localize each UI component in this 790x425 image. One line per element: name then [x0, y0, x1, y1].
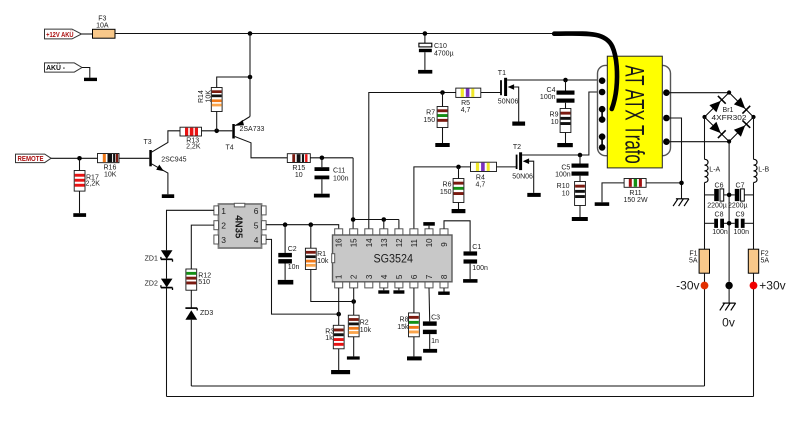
wire F1 to -30v node: [704, 273, 706, 386]
svg-text:C3: C3: [431, 314, 440, 321]
svg-text:4XFR302: 4XFR302: [712, 113, 747, 122]
svg-text:5A: 5A: [689, 257, 698, 264]
ground pin5: [393, 288, 404, 294]
junction C2 top: [283, 222, 288, 227]
svg-text:T3: T3: [144, 139, 152, 146]
svg-text:2200µ: 2200µ: [707, 202, 727, 209]
resistor R11 150 2W: [602, 179, 682, 205]
wire pin9 to C1: [444, 221, 470, 252]
capacitor C8 100n: [705, 212, 730, 236]
svg-text:1n: 1n: [431, 338, 439, 345]
svg-text:2SC945: 2SC945: [161, 157, 186, 164]
svg-text:1: 1: [221, 206, 226, 216]
bridge rectifier Br1 4XFR302: [702, 90, 755, 143]
transformer AT ATX Trafo: [598, 56, 671, 168]
resistor R10 10: [557, 182, 586, 218]
ground C3: [423, 349, 437, 353]
svg-text:2: 2: [350, 274, 359, 279]
svg-text:1: 1: [335, 274, 344, 279]
wire pin7 to C3: [428, 288, 431, 322]
wire pin1 to R3: [338, 288, 340, 325]
svg-text:10n: 10n: [288, 264, 300, 271]
junction R7: [440, 90, 445, 95]
junction C4: [563, 78, 568, 83]
resistor R8 15k: [397, 313, 419, 357]
ground pin4: [378, 288, 389, 294]
svg-text:50N06: 50N06: [498, 99, 519, 106]
fuse F2 5A: [748, 249, 769, 273]
capacitor C1 100n: [464, 244, 488, 279]
svg-text:100n: 100n: [472, 265, 488, 272]
svg-text:3: 3: [365, 274, 374, 279]
svg-text:R14: R14: [198, 90, 205, 103]
wire +30v rail: [753, 183, 755, 250]
ground C11: [314, 194, 330, 198]
wire feedback +30v (B): [167, 396, 754, 398]
svg-text:REMOTE: REMOTE: [18, 156, 44, 163]
svg-text:C9: C9: [736, 212, 745, 219]
junction R14/T4 emitter: [248, 75, 253, 80]
svg-text:C2: C2: [288, 246, 297, 253]
wire F2 to +30v node: [753, 273, 755, 396]
svg-text:4,7: 4,7: [476, 182, 486, 189]
node REMOTE flag: [16, 154, 52, 163]
svg-text:AT ATX Trafo: AT ATX Trafo: [619, 65, 649, 164]
wire R12 to ZD3: [190, 290, 192, 308]
svg-text:4: 4: [380, 274, 389, 279]
svg-text:T1: T1: [498, 70, 506, 77]
junction R1/pin2: [351, 299, 356, 304]
svg-text:2200µ: 2200µ: [728, 202, 748, 209]
ground AKU-: [84, 78, 97, 81]
wire R13 to T4 base: [202, 130, 233, 132]
svg-text:C5: C5: [561, 164, 570, 171]
wire AKU- to ground: [82, 68, 90, 78]
resistor R2 10k: [348, 315, 371, 356]
ground R7: [435, 143, 449, 147]
svg-text:10A: 10A: [96, 23, 109, 30]
svg-text:100n: 100n: [734, 229, 750, 236]
wire pin11 column: [414, 167, 471, 229]
svg-text:10: 10: [562, 190, 570, 197]
trafo pin link 5-6: [601, 137, 603, 148]
svg-text:16: 16: [335, 238, 344, 247]
transistor T1 50N06: [498, 70, 519, 122]
junction REMOTE/R17: [77, 156, 82, 161]
ground R2: [347, 356, 360, 359]
wire +12V rail: [115, 33, 554, 35]
svg-text:3: 3: [221, 235, 226, 245]
resistor R12 510: [186, 269, 211, 290]
svg-text:510: 510: [198, 279, 210, 286]
junction R11/trafo/chassis: [679, 181, 684, 186]
svg-text:5: 5: [395, 274, 404, 279]
svg-text:R6: R6: [443, 182, 452, 189]
junction R13/R14/T4: [214, 129, 219, 134]
node -30v: [676, 278, 708, 292]
svg-text:10: 10: [295, 172, 303, 179]
ground pin10 (above): [423, 222, 435, 229]
junction C5: [578, 153, 583, 158]
svg-text:T4: T4: [226, 144, 234, 151]
diode bottom-left: [709, 122, 720, 133]
svg-text:R7: R7: [426, 110, 435, 117]
ground pin8: [438, 288, 450, 295]
capacitor C6 2200u: [705, 182, 730, 209]
svg-text:10: 10: [425, 238, 434, 247]
capacitor C7 2200u: [728, 182, 754, 209]
wire R1 to pin2 column: [311, 270, 354, 302]
svg-text:2,2K: 2,2K: [186, 144, 201, 151]
svg-text:SG3524: SG3524: [374, 254, 414, 266]
wire +30v rail upper: [753, 117, 755, 159]
svg-text:10k: 10k: [360, 327, 372, 334]
wire REMOTE to R16: [51, 157, 98, 159]
wire pin15 column: [352, 158, 354, 229]
svg-text:C7: C7: [736, 182, 745, 189]
svg-text:R15: R15: [292, 165, 305, 172]
svg-text:R5: R5: [461, 100, 470, 107]
zener ZD1: [145, 250, 173, 262]
wire -30v rail upper: [704, 117, 706, 159]
ground R10: [572, 217, 588, 221]
svg-text:5A: 5A: [761, 257, 770, 264]
ground C1: [463, 279, 477, 283]
wire 4N35 pin5 to pin16: [266, 225, 339, 229]
svg-text:C6: C6: [715, 182, 724, 189]
svg-text:6: 6: [254, 206, 259, 216]
ground C2: [278, 280, 294, 285]
svg-text:150 2W: 150 2W: [623, 197, 648, 204]
svg-text:R11: R11: [629, 190, 641, 197]
resistor R7 150: [423, 93, 447, 144]
svg-text:100n: 100n: [712, 229, 728, 236]
wire R15 to pin15 column: [310, 157, 353, 159]
wire pin2 to R2: [353, 288, 355, 315]
transistor T4 2SA733: [226, 34, 288, 158]
resistor R15 10: [287, 154, 310, 179]
junction C11: [320, 156, 325, 161]
svg-text:R9: R9: [550, 112, 559, 119]
resistor R16 10K: [98, 154, 120, 179]
svg-text:ZD2: ZD2: [145, 280, 158, 287]
svg-text:F2: F2: [761, 250, 769, 257]
wire ZD1 to ZD2: [166, 260, 168, 279]
capacitor C5 100n: [555, 155, 588, 182]
resistor R4 4,7: [471, 162, 497, 188]
svg-text:L-A: L-A: [709, 167, 720, 174]
wire 0v rail: [728, 142, 730, 282]
svg-text:10K: 10K: [206, 90, 213, 103]
svg-text:15: 15: [350, 238, 359, 247]
svg-text:C11: C11: [333, 168, 345, 175]
svg-text:0v: 0v: [722, 316, 735, 330]
svg-text:100n: 100n: [540, 94, 556, 101]
wire T2 drain to trafo: [522, 92, 602, 155]
wire R4 to T2 gate: [497, 166, 517, 168]
svg-text:12: 12: [395, 238, 404, 247]
svg-text:150: 150: [423, 117, 435, 124]
svg-text:2,2K: 2,2K: [86, 181, 101, 188]
svg-text:T2: T2: [513, 144, 521, 151]
resistor R9 10: [550, 109, 571, 144]
junction R6: [456, 165, 461, 170]
inductor L-B: [754, 159, 770, 182]
svg-text:10k: 10k: [317, 258, 329, 265]
zener ZD2: [145, 279, 173, 290]
svg-text:C1: C1: [472, 244, 481, 251]
svg-text:-30v: -30v: [676, 278, 699, 292]
svg-text:50N06: 50N06: [512, 173, 533, 180]
node AKU- flag: [45, 63, 83, 72]
svg-text:150: 150: [440, 189, 452, 196]
resistor R14 10K: [198, 77, 250, 131]
ground C10: [418, 70, 432, 74]
svg-text:15k: 15k: [397, 324, 409, 331]
svg-text:6: 6: [410, 274, 419, 279]
svg-text:10: 10: [551, 119, 559, 126]
ground T2: [527, 193, 540, 197]
wire trafo right pin1 to bridge top: [666, 92, 729, 94]
wire ZD3 down to -30v feedback: [190, 320, 192, 386]
optocoupler U2 4N35: [214, 203, 266, 248]
wire -30v rail: [704, 183, 706, 250]
resistor R6 150: [440, 167, 464, 209]
junction C8/C9: [727, 221, 732, 226]
svg-text:14: 14: [365, 238, 374, 247]
svg-text:2: 2: [221, 221, 226, 231]
svg-text:2SA733: 2SA733: [240, 126, 265, 133]
wire trafo right pin2 down to R11 node: [666, 118, 681, 199]
transistor T2 50N06: [512, 144, 533, 193]
chassis ground 0v: [720, 303, 736, 310]
wire pin14 column: [369, 93, 456, 229]
IC U1 SG3524: [332, 229, 452, 288]
svg-text:ZD1: ZD1: [145, 255, 158, 262]
inductor L-A: [705, 159, 721, 182]
wire feedback -30v (A): [191, 385, 704, 387]
trafo pin dots left: [599, 77, 606, 150]
trafo pin link 3-4: [601, 109, 603, 119]
capacitor C10 4700u: [419, 34, 454, 70]
svg-text:F1: F1: [689, 250, 697, 257]
wire R5 to T1 gate: [481, 92, 501, 94]
wire 4N35 pin1 to ZD1: [167, 210, 214, 250]
svg-text:F3: F3: [98, 16, 106, 23]
svg-text:100n: 100n: [333, 175, 349, 182]
svg-text:100n: 100n: [555, 172, 571, 179]
svg-text:13: 13: [380, 238, 389, 247]
fuse F3 10A: [93, 16, 116, 38]
wire pin15/13/12 bus: [353, 219, 399, 221]
junction rail/T4: [248, 31, 253, 36]
wire T1 drain to trafo: [507, 79, 602, 81]
junction pin15 bus: [351, 217, 356, 222]
junction R1 top: [309, 222, 314, 227]
svg-text:R10: R10: [557, 183, 570, 190]
svg-text:L-B: L-B: [758, 167, 769, 174]
diode bottom-right: [734, 125, 745, 136]
svg-text:11: 11: [410, 238, 419, 247]
capacitor C9 100n: [729, 212, 753, 236]
ground R17: [73, 213, 86, 217]
resistor R17 2,2K: [74, 158, 100, 213]
svg-text:C10: C10: [434, 43, 447, 50]
wire thick cable from +12V rail into trafo: [554, 34, 617, 109]
svg-text:C8: C8: [715, 212, 724, 219]
svg-text:5: 5: [254, 221, 259, 231]
diode top-right: [734, 97, 745, 108]
chassis ground near trafo: [673, 199, 689, 206]
resistor R3 1k: [325, 325, 344, 370]
resistor R5 4,7: [456, 88, 481, 114]
svg-text:R2: R2: [360, 320, 369, 327]
svg-text:1k: 1k: [325, 335, 333, 342]
junction pin13 bus: [382, 217, 387, 222]
ground R8: [407, 356, 422, 360]
svg-text:ZD3: ZD3: [200, 310, 213, 317]
wire 4N35 pin2 to R12: [191, 225, 214, 269]
wire R16 to T3 base: [119, 157, 149, 159]
ground T3: [162, 194, 174, 198]
resistor R1 10k: [305, 225, 328, 270]
svg-text:10K: 10K: [104, 171, 117, 178]
svg-text:8: 8: [440, 274, 449, 279]
junction rail/C10: [423, 31, 428, 36]
fuse F1 5A: [689, 249, 710, 273]
transistor T3 2SC945: [144, 131, 187, 195]
svg-text:R8: R8: [400, 317, 409, 324]
ground R9: [557, 143, 573, 147]
node +30v: [750, 278, 786, 292]
ground R11: [595, 202, 610, 206]
svg-text:C4: C4: [547, 87, 556, 94]
svg-text:+30v: +30v: [759, 278, 785, 292]
capacitor C2 10n: [278, 225, 299, 280]
wire trafo right pin3 to bridge bottom: [666, 141, 729, 143]
node 0v: [722, 282, 735, 330]
ground R3: [331, 370, 350, 374]
wire pin13 stub: [383, 220, 385, 229]
zener ZD3: [185, 308, 213, 320]
ground T1: [512, 122, 525, 126]
junction C6/C7: [727, 193, 732, 198]
resistor R13 2,2K: [180, 127, 202, 151]
svg-text:R4: R4: [476, 175, 485, 182]
diode top-left: [709, 101, 720, 112]
svg-text:R16: R16: [104, 164, 117, 171]
svg-text:4700µ: 4700µ: [434, 51, 454, 58]
svg-text:9: 9: [440, 242, 449, 247]
trafo pin dots right: [663, 89, 670, 145]
ground R6: [452, 209, 466, 213]
wire pin6 to R8: [413, 288, 415, 313]
svg-text:7: 7: [425, 274, 434, 279]
svg-text:4,7: 4,7: [461, 107, 471, 114]
capacitor C4 100n: [540, 80, 575, 109]
wire flag to F3: [82, 33, 93, 35]
junction pin4-wire/R3: [336, 312, 341, 317]
capacitor C3 1n: [423, 314, 440, 349]
wire 4N35 pin4 to R3 junction: [266, 239, 339, 314]
wire ZD2 down to +30v feedback: [166, 288, 168, 396]
svg-text:+12V AKÜ: +12V AKÜ: [46, 30, 74, 39]
svg-text:4: 4: [254, 235, 259, 245]
wire pin12 stub: [398, 220, 400, 229]
svg-text:AKÜ -: AKÜ -: [46, 63, 66, 72]
svg-text:4N35: 4N35: [233, 215, 245, 238]
capacitor C11 100n: [315, 158, 349, 194]
node +12V AKU flag: [45, 29, 82, 39]
